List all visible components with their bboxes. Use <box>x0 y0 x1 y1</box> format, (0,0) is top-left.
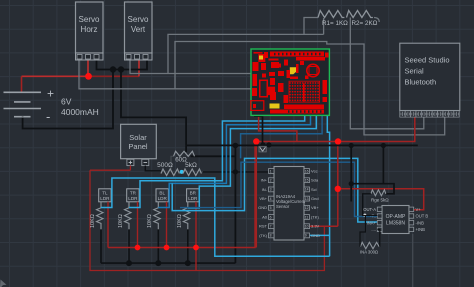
wire solar pin2 to resistors <box>145 166 161 171</box>
wire black board gnd <box>186 116 418 202</box>
svg-text:Rge 5kΩ: Rge 5kΩ <box>371 198 389 203</box>
opamp pins left <box>377 207 382 231</box>
resistor 60ohm <box>174 151 195 156</box>
svg-text:Horz: Horz <box>81 25 98 34</box>
opamp pins right <box>409 207 414 231</box>
LDR TL <box>99 189 111 202</box>
crystal X1 <box>259 146 266 152</box>
servo M1 Horz <box>76 2 104 60</box>
IC U2 pin labels right <box>311 168 320 237</box>
node black bus dots <box>126 260 132 266</box>
wire gray servo horz signal <box>79 60 251 89</box>
svg-text:8: 8 <box>270 234 272 238</box>
resistor INA lower <box>360 242 379 249</box>
wire 60ohm left lead <box>171 156 174 169</box>
bottom pads <box>251 101 324 114</box>
svg-text:Scl: Scl <box>311 187 317 192</box>
wire servo vert vcc <box>138 60 140 77</box>
servo M2 Vert <box>125 2 153 60</box>
svg-text:INA 300Ω: INA 300Ω <box>360 250 378 255</box>
resistor 500ohm <box>161 169 179 176</box>
svg-text:Vcc: Vcc <box>311 168 318 173</box>
wire cyan chip gnd <box>309 234 330 236</box>
wire black lower resistor <box>360 216 380 247</box>
resistor 10k BR <box>183 202 190 230</box>
wire black ldr gnd leads <box>101 229 235 263</box>
node cyan tap <box>180 170 184 174</box>
svg-text:RST: RST <box>259 224 268 229</box>
svg-text:+: + <box>47 87 54 101</box>
svg-text:10KΩ: 10KΩ <box>118 214 124 228</box>
wire red ldr plus leads <box>108 142 255 271</box>
svg-text:VB+: VB+ <box>311 205 319 210</box>
svg-text:IN+: IN+ <box>261 178 268 183</box>
svg-text:LM358N: LM358N <box>386 221 405 227</box>
wire cyan opamp in <box>172 158 377 222</box>
LDR BR <box>187 189 199 202</box>
IC U2 INA219 <box>274 167 306 241</box>
svg-text:LDR: LDR <box>158 196 168 201</box>
arduino board U1 <box>251 49 330 115</box>
wire red solar to left bus <box>90 166 324 271</box>
battery B1 <box>4 92 42 116</box>
svg-text:Gnd: Gnd <box>311 196 319 201</box>
svg-text:3.3V: 3.3V <box>311 224 320 229</box>
wire gray below opamp <box>412 234 414 287</box>
svg-text:Seeed Studio: Seeed Studio <box>405 56 450 65</box>
svg-text:(TK): (TK) <box>259 233 267 238</box>
svg-text:Servo: Servo <box>79 15 100 24</box>
wire gray R2 right hook <box>374 18 379 23</box>
wire battery minus lead <box>22 116 24 118</box>
resistor R1 <box>318 11 344 18</box>
svg-text:(TK): (TK) <box>311 214 319 219</box>
svg-text:14: 14 <box>305 188 309 192</box>
resistor 5kohm <box>183 169 201 176</box>
wire blue opamp in2 <box>180 162 377 216</box>
wire battery plus lead <box>21 76 23 92</box>
svg-text:OP-AMP: OP-AMP <box>386 214 406 220</box>
svg-text:16: 16 <box>305 169 309 173</box>
top pad rows <box>258 52 328 63</box>
svg-text:OUT-A: OUT-A <box>363 207 376 212</box>
svg-text:LDR: LDR <box>128 196 138 201</box>
IC U2 pin labels left <box>258 178 268 238</box>
svg-text:LDR: LDR <box>100 196 110 201</box>
svg-text:Serial: Serial <box>405 67 425 76</box>
yellow bits <box>290 67 298 74</box>
svg-text:V+: V+ <box>416 207 422 212</box>
IC U2 pin numbers <box>270 169 309 237</box>
wire gray R1 to board <box>168 18 324 74</box>
opamp pin labels <box>363 207 428 232</box>
wire gray R2 to board <box>175 42 445 135</box>
left column parts <box>252 52 327 108</box>
svg-text:500Ω: 500Ω <box>157 162 173 169</box>
resistor R2 <box>347 11 373 18</box>
wire servo horz vcc <box>87 60 89 77</box>
svg-text:OUT B: OUT B <box>416 214 429 219</box>
svg-text:4: 4 <box>270 197 272 201</box>
svg-text:3: 3 <box>270 188 272 192</box>
seeed studio bluetooth <box>400 43 460 110</box>
resistor 10k TL <box>97 202 104 230</box>
svg-text:6: 6 <box>270 215 272 219</box>
seeed pin strip text marks <box>401 112 458 116</box>
svg-text:11: 11 <box>305 215 309 219</box>
svg-text:Vert: Vert <box>131 25 146 34</box>
LDR TR <box>127 189 139 202</box>
node red dots mid <box>253 138 259 144</box>
node junction red servo <box>85 73 92 80</box>
proto grid <box>289 81 320 102</box>
svg-text:7: 7 <box>270 225 272 229</box>
solar panel SP1 <box>121 124 157 165</box>
wire red bus mid <box>256 116 423 248</box>
svg-text:10KΩ: 10KΩ <box>177 214 183 228</box>
svg-text:-T..: -T.. <box>370 214 376 219</box>
svg-text:5: 5 <box>270 206 272 210</box>
svg-text:Solar: Solar <box>129 133 147 142</box>
svg-text:R2= 2KΩ: R2= 2KΩ <box>352 20 378 27</box>
node red ldr dots <box>135 245 141 251</box>
node black dot 1 <box>110 66 116 72</box>
wire gray tap R1R2 to seeed <box>350 18 424 129</box>
svg-text:15: 15 <box>305 179 309 183</box>
svg-text:Servo: Servo <box>128 15 149 24</box>
svg-text:IN-: IN- <box>262 187 268 192</box>
svg-text:10KΩ: 10KΩ <box>147 214 153 228</box>
resistor 10k TR <box>125 202 132 230</box>
svg-text:A0: A0 <box>262 214 268 219</box>
IC U2 pins right <box>304 169 310 238</box>
opamp U3 LM358 <box>382 206 409 234</box>
cursor mark bottom left <box>0 280 7 287</box>
node black solar gnd <box>233 169 238 174</box>
LDR BL <box>156 189 168 202</box>
resistor 10k BL <box>154 202 161 230</box>
wire teal BL staircase <box>158 116 310 208</box>
svg-text:4000mAH: 4000mAH <box>61 107 99 117</box>
capacitor circle <box>307 64 319 76</box>
wire cyan TL staircase <box>101 116 330 257</box>
wire servo grounds black <box>23 60 236 264</box>
svg-text:INA+: INA+ <box>367 220 377 225</box>
svg-text:9: 9 <box>305 234 307 238</box>
svg-text:Bluetooth: Bluetooth <box>405 78 437 87</box>
svg-text:10KΩ: 10KΩ <box>90 214 96 228</box>
resistor Rge feedback <box>371 190 386 196</box>
svg-text:VB+: VB+ <box>259 196 267 201</box>
svg-text:12: 12 <box>305 206 309 210</box>
seeed pin strip <box>400 111 459 117</box>
svg-text:2: 2 <box>270 179 272 183</box>
wire red bus top <box>22 75 140 77</box>
IC U2 pins left <box>269 169 275 238</box>
svg-text:+INB: +INB <box>416 227 426 232</box>
svg-text:-INB: -INB <box>416 220 425 225</box>
node white junction <box>363 214 366 217</box>
svg-text:R1= 1KΩ: R1= 1KΩ <box>322 20 348 27</box>
svg-text:13: 13 <box>305 197 309 201</box>
svg-text:5kΩ: 5kΩ <box>185 162 197 169</box>
svg-text:1: 1 <box>270 169 272 173</box>
svg-text:GND: GND <box>258 205 267 210</box>
svg-text:LDR: LDR <box>188 196 198 201</box>
svg-text:6V: 6V <box>61 97 72 107</box>
node black dots mid <box>233 143 239 149</box>
svg-text:GND: GND <box>311 233 320 238</box>
svg-text:Sensor: Sensor <box>276 204 290 209</box>
wire black feedback left <box>363 194 378 216</box>
wire blue w4 staircase <box>241 116 323 159</box>
svg-text:-: - <box>46 109 50 124</box>
wire resistor to chip in+ <box>203 171 269 173</box>
svg-text:Panel: Panel <box>128 142 148 151</box>
svg-text:....: .... <box>371 227 376 232</box>
svg-text:Sda: Sda <box>311 178 319 183</box>
node black dot 2 <box>118 66 124 72</box>
svg-text:10: 10 <box>305 225 309 229</box>
